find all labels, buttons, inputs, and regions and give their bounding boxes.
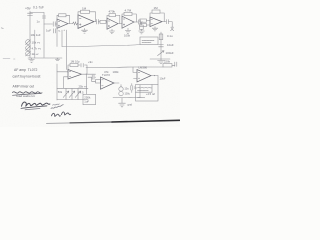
svg-text:10u: 10u: [125, 88, 130, 91]
paper texture: [0, 0, 180, 127]
signature underline 2: [25, 109, 40, 110]
wire U4 in-: [64, 77, 69, 89]
handwriting line 4 scribble: [13, 92, 43, 94]
pot arrow: [158, 51, 165, 56]
left margin tick: [1, 27, 4, 30]
pot V1: [63, 89, 69, 99]
wire v57: [56, 28, 58, 46]
svg-text:220k: 220k: [164, 60, 171, 64]
wire vertical branch: [43, 13, 45, 58]
wire out edge: [169, 22, 173, 28]
wire chain right: [160, 32, 162, 59]
svg-text:100uF: 100uF: [166, 51, 174, 55]
box 250k: [83, 94, 96, 104]
svg-text:10uF: 10uF: [160, 77, 166, 81]
wire U6 in: [133, 67, 137, 78]
svg-text:AMP mixer out: AMP mixer out: [13, 84, 35, 88]
connector J1: [171, 27, 174, 30]
wire U2B feedback: [122, 14, 136, 22]
note line 2: [138, 89, 149, 91]
op-amp U2B: [122, 16, 134, 28]
svg-text:10uF: 10uF: [167, 43, 174, 47]
wire rail 2: [34, 30, 36, 58]
op-amp U1A: [57, 19, 68, 28]
ground U1B: [82, 28, 88, 33]
ground bottom: [119, 103, 126, 107]
node dot out: [86, 74, 87, 75]
op-amp U3: [150, 17, 162, 27]
wire U5 input: [88, 76, 96, 78]
trimmer P2: [26, 46, 31, 51]
svg-text:1k +v: 1k +v: [32, 52, 40, 56]
svg-text:1M: 1M: [154, 6, 159, 10]
resistor R8a: [140, 19, 147, 22]
trimmer P3: [26, 51, 31, 56]
wire: [92, 77, 96, 81]
wire top branch: [30, 12, 44, 14]
wire v140: [139, 85, 141, 97]
signature underline: [21, 106, 47, 109]
wire U2B out: [134, 21, 138, 23]
ground left: [29, 58, 35, 62]
node dot: [64, 30, 65, 31]
wire v66 long: [65, 30, 67, 70]
ground U2B: [125, 28, 131, 33]
wire pot top: [57, 87, 88, 89]
capacitor C12: [131, 84, 133, 93]
resistor R12: [70, 63, 78, 66]
note w-ohms: [51, 105, 63, 109]
node dot: [154, 75, 155, 76]
capacitor C5: [139, 20, 141, 24]
note line 3: [138, 96, 145, 98]
svg-text:1uF: 1uF: [46, 29, 51, 33]
svg-text:0.1-7uF: 0.1-7uF: [33, 6, 44, 10]
note line 1: [138, 87, 152, 89]
wire to U2B: [118, 23, 122, 25]
ground U3: [152, 27, 158, 31]
note w-ohms 2: [53, 104, 60, 105]
wire input: [44, 23, 57, 25]
wire U5 out: [114, 82, 119, 84]
svg-text:+4.5 ref: +4.5 ref: [146, 92, 155, 96]
capacitor C2: [42, 16, 45, 18]
ground mid: [55, 58, 59, 61]
svg-text:470k: 470k: [109, 10, 116, 14]
capacitor C10: [92, 75, 94, 79]
op-amp U5: [101, 77, 115, 89]
op-amp input marks: [58, 19, 152, 86]
block filter box: [140, 37, 158, 45]
resistor R4: [100, 20, 106, 23]
svg-text:LM386: LM386: [139, 65, 148, 69]
wire left stub: [3, 58, 15, 60]
svg-text:road audio kit: road audio kit: [16, 94, 35, 98]
capacitor C11 circles: [119, 87, 123, 91]
op-amp U2A: [107, 18, 118, 29]
pot V2: [69, 89, 75, 99]
svg-text:100k: 100k: [124, 34, 131, 38]
svg-text:1M: 1M: [82, 7, 87, 11]
wire U1A out: [68, 23, 73, 25]
wire U4 in+: [57, 71, 68, 73]
wire U1A feedback: [57, 15, 70, 23]
ground U2A: [109, 29, 114, 34]
trimmer P1: [26, 40, 31, 45]
wire down from out: [85, 74, 87, 88]
svg-text:can't buy low boost: can't buy low boost: [13, 74, 41, 78]
resistor R9: [152, 10, 160, 13]
box notes divider: [136, 85, 153, 93]
wire to U1B: [77, 23, 80, 25]
wire stub down: [85, 88, 87, 94]
capacitor C6: [53, 29, 55, 33]
svg-text:0.1u: 0.1u: [167, 34, 173, 38]
capacitor C7: [159, 45, 164, 47]
wire bus right: [150, 58, 170, 60]
wire U1B out: [94, 21, 96, 23]
capacitor C13: [167, 20, 169, 24]
resistor R8b: [140, 23, 147, 26]
wire U4 out: [82, 73, 96, 75]
svg-text:TL072: TL072: [102, 73, 110, 77]
op-amp U1B: [78, 15, 94, 29]
resistor R6: [124, 12, 132, 15]
svg-text:10k 1uF: 10k 1uF: [31, 33, 41, 37]
svg-text:+9v: +9v: [88, 60, 93, 64]
svg-text:100u: 100u: [125, 93, 131, 96]
wire U3 out: [162, 21, 166, 23]
resistor R1 feedback: [59, 14, 67, 17]
wire U1B feedback: [78, 12, 96, 22]
wire +9V rail: [29, 11, 31, 58]
wire v62: [61, 30, 63, 47]
resistor R3: [81, 10, 90, 13]
op-amp U4: [68, 70, 82, 80]
wire bottom bus: [113, 96, 140, 98]
wire to ground: [121, 98, 123, 103]
wire U4 feedback: [68, 65, 87, 74]
svg-text:AF amp TL072: AF amp TL072: [14, 68, 37, 72]
svg-text:50k: 50k: [58, 90, 63, 94]
svg-text:u.: u.: [59, 29, 62, 33]
label in box: [142, 39, 154, 41]
svg-text:25k +v: 25k +v: [79, 85, 88, 89]
wire ground bus: [28, 57, 62, 59]
wire U2A feedback: [107, 15, 120, 23]
resistor R14: [96, 80, 101, 83]
ground right: [158, 59, 165, 64]
resistor R13: [163, 64, 172, 67]
box notes: [136, 85, 159, 102]
resistor R5: [109, 14, 116, 17]
wire long lower: [86, 66, 163, 69]
resistor R2: [73, 22, 78, 25]
wire to U2A: [106, 22, 107, 23]
svg-text:4.7M: 4.7M: [125, 9, 132, 13]
wire v57 lower: [56, 64, 58, 100]
svg-text:1uF: 1uF: [84, 100, 89, 104]
svg-text:1M 10p: 1M 10p: [71, 60, 80, 64]
handwriting underline 4: [13, 94, 41, 96]
handwriting Tab Miller: [52, 113, 61, 116]
svg-text:100k: 100k: [113, 70, 120, 74]
wire after R13: [172, 64, 175, 66]
wire U3 feedback: [150, 13, 164, 22]
svg-text:10k +v: 10k +v: [32, 41, 41, 45]
capacitor C1: [28, 13, 33, 15]
wire node: [140, 22, 143, 25]
wire long mid: [62, 44, 140, 46]
svg-text:1u: 1u: [37, 20, 41, 24]
resistor R11: [159, 34, 163, 40]
svg-text:4.7k +v: 4.7k +v: [32, 47, 42, 51]
wire pot bottom: [57, 99, 88, 101]
capacitor C9: [175, 62, 177, 66]
capacitor C4: [97, 19, 99, 24]
svg-text:gnd: gnd: [128, 103, 133, 107]
pot V3: [75, 89, 81, 99]
bottom scan line: [47, 122, 71, 125]
wire U6 out: [151, 75, 158, 77]
signature big: [22, 102, 50, 106]
capacitor C3: [53, 22, 55, 27]
ground R7: [139, 29, 145, 34]
wire v158: [157, 76, 159, 85]
capacitor C8: [81, 63, 83, 67]
svg-text:+9v: +9v: [25, 7, 31, 11]
wire to U3: [146, 21, 150, 25]
op-amp U6: [137, 70, 151, 83]
wire: [98, 21, 100, 23]
resistor R7: [140, 25, 144, 29]
